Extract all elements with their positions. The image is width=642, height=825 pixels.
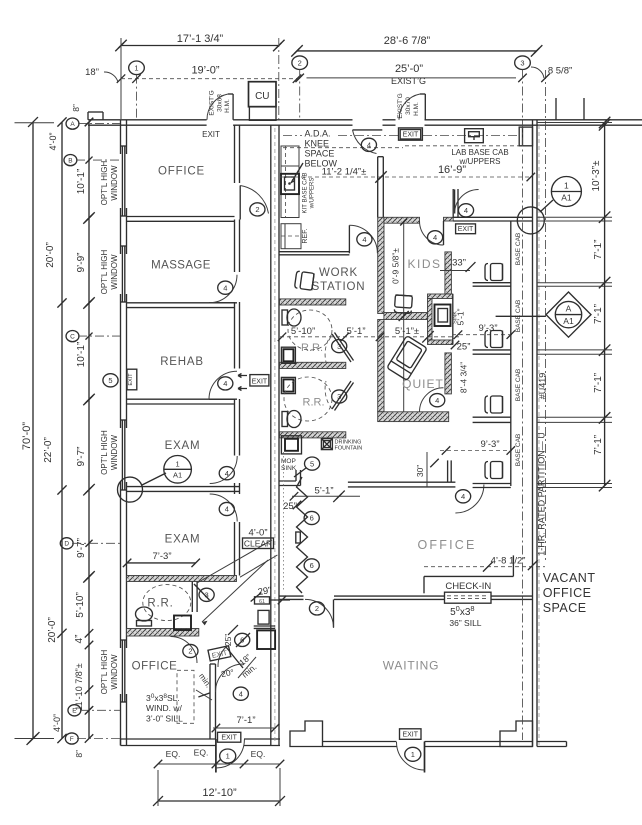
- svg-text:MASSAGE: MASSAGE: [151, 260, 211, 272]
- svg-text:9’-9”: 9’-9”: [76, 252, 87, 272]
- svg-text:4: 4: [362, 235, 366, 244]
- svg-text:3’-0” SILL: 3’-0” SILL: [146, 714, 183, 724]
- vertical dim line kids/quiet: [403, 222, 405, 412]
- lav box top corridor: [465, 129, 484, 143]
- door exam2 (4): [210, 494, 238, 522]
- svg-text:H.M.: H.M.: [413, 102, 420, 116]
- svg-text:2: 2: [188, 647, 192, 656]
- svg-text:EQ.: EQ.: [194, 748, 209, 758]
- svg-text:EXAM: EXAM: [165, 440, 201, 452]
- cubicle partition 1: [473, 282, 511, 284]
- svg-text:OFFICE: OFFICE: [417, 538, 476, 552]
- column right top: [519, 127, 532, 146]
- svg-text:1: 1: [176, 460, 180, 469]
- svg-text:2: 2: [298, 58, 302, 67]
- svg-text:3: 3: [205, 591, 209, 600]
- svg-text:70’-0”: 70’-0”: [21, 422, 33, 450]
- svg-text:EXAM: EXAM: [165, 534, 201, 546]
- tick right end top wall: [599, 120, 607, 128]
- svg-text:30x70: 30x70: [405, 97, 412, 115]
- wall work station north: [280, 251, 350, 253]
- svg-text:4’-0”: 4’-0”: [248, 528, 267, 539]
- mid dim line 20/22/20: [61, 122, 63, 739]
- svg-text:A1: A1: [173, 471, 182, 480]
- svg-text:REHAB: REHAB: [160, 356, 204, 368]
- exit box tilted lower office: [208, 646, 231, 661]
- svg-text:OPT’L HIGH: OPT’L HIGH: [100, 160, 109, 205]
- kids chair: [394, 295, 412, 314]
- svg-text:25”: 25”: [457, 342, 471, 353]
- exit box top right corridor: [399, 128, 423, 140]
- svg-text:10’-1”: 10’-1”: [76, 169, 87, 195]
- grid bubble A: [66, 118, 79, 129]
- svg-text:KNEE: KNEE: [305, 139, 330, 149]
- window dashed (3'0x3'8): [177, 670, 194, 723]
- svg-text:7’-1”: 7’-1”: [593, 435, 604, 455]
- svg-text:A1: A1: [561, 193, 572, 203]
- wall quiet east hatched: [445, 353, 452, 394]
- svg-text:SPACE: SPACE: [543, 601, 587, 615]
- chairs right column: [485, 264, 503, 281]
- svg-text:CHECK-IN: CHECK-IN: [445, 581, 491, 592]
- svg-text:LAB BASE CAB: LAB BASE CAB: [451, 148, 508, 157]
- svg-text:OPT’L HIGH: OPT’L HIGH: [100, 249, 109, 294]
- diamond A/A1: [546, 292, 591, 337]
- svg-text:30x68: 30x68: [217, 94, 224, 112]
- svg-text:5’-1”: 5’-1”: [314, 486, 333, 497]
- wall exterior top: [88, 119, 207, 121]
- zigzag plates: [296, 532, 301, 543]
- dim line bottom eq: [158, 763, 280, 765]
- svg-text:4’-8 1/2”: 4’-8 1/2”: [491, 556, 526, 567]
- door 4 lower office arc: [216, 664, 244, 692]
- svg-text:5’-10”: 5’-10”: [291, 326, 315, 337]
- svg-text:EXIT: EXIT: [128, 373, 134, 386]
- grid bubble D: [60, 538, 73, 549]
- svg-text:EXIT: EXIT: [403, 131, 419, 138]
- svg-text:12’-10”: 12’-10”: [202, 787, 237, 799]
- exit box door1: [218, 732, 241, 742]
- svg-text:WINDOW: WINDOW: [110, 435, 119, 471]
- svg-text:EXIT: EXIT: [252, 378, 268, 385]
- svg-text:7’-1”: 7’-1”: [593, 239, 604, 259]
- check-in counter lines: [423, 576, 425, 593]
- wall kids/quiet divider hatched: [384, 313, 428, 320]
- svg-text:E: E: [72, 708, 77, 715]
- grid bubble 1 top: [129, 61, 145, 75]
- vestibule pier left (waiting): [290, 721, 323, 747]
- door 2 office left-suite + arc: [239, 186, 241, 220]
- wall ada east: [377, 157, 379, 218]
- svg-text:7’-1”: 7’-1”: [593, 373, 604, 393]
- svg-text:17’-1 3/4”: 17’-1 3/4”: [177, 33, 224, 45]
- svg-text:WINDOW: WINDOW: [110, 165, 119, 201]
- svg-text:4’-0”: 4’-0”: [48, 132, 58, 150]
- svg-text:2: 2: [255, 205, 259, 214]
- svg-text:WORK: WORK: [319, 267, 358, 279]
- svg-text:REF.: REF.: [302, 228, 309, 243]
- door 1 waiting: [424, 742, 426, 773]
- grid bubble 2 top: [292, 56, 308, 70]
- svg-text:30”: 30”: [415, 465, 425, 477]
- wall exam/exam: [127, 486, 240, 488]
- witness lines right: [537, 216, 612, 218]
- svg-text:C: C: [70, 333, 75, 340]
- door 3 left r.r.: [194, 584, 210, 600]
- svg-text:CLEAR: CLEAR: [244, 539, 272, 549]
- wall left-suite corridor (right wall): [234, 125, 236, 183]
- wall top-left corner jog: [102, 112, 104, 120]
- r.r.1 right suite walls hatched: [280, 299, 346, 305]
- refrigerator dashed: [281, 224, 301, 249]
- wall rehab/exam: [127, 398, 235, 400]
- dim line dashed y177: [280, 176, 531, 178]
- quiet recliner chair: [387, 336, 427, 381]
- r.r.2 toilet: [282, 412, 288, 427]
- svg-text:25”: 25”: [223, 634, 233, 646]
- wall quiet west hatched: [378, 320, 384, 412]
- r.r. turn circles dashed: [288, 310, 332, 350]
- svg-text:WINDOW: WINDOW: [110, 654, 119, 690]
- svg-text:A.D.A.: A.D.A.: [305, 129, 331, 139]
- door exam1 (4): [210, 456, 238, 484]
- wall below r.r. vestibule: [191, 582, 193, 613]
- svg-text:4: 4: [435, 396, 439, 405]
- svg-text:4: 4: [223, 379, 227, 388]
- leader arrow 4'-0 clear to r.r.: [202, 560, 268, 622]
- leader to detail circle: [540, 200, 553, 212]
- exit box rehab (right): [250, 375, 269, 386]
- svg-text:VACANT: VACANT: [543, 571, 596, 585]
- leader ada to cabinet: [291, 163, 303, 183]
- r.r.1 door 3: [332, 334, 351, 362]
- wall east of lower office: [209, 664, 211, 739]
- wall quiet south hatched: [378, 412, 449, 422]
- svg-text:KIDS: KIDS: [407, 257, 441, 271]
- wall r.r. south: [127, 629, 199, 637]
- svg-text:4”: 4”: [74, 635, 85, 644]
- grid bubble E: [68, 705, 81, 716]
- svg-text:5’-10”: 5’-10”: [75, 592, 86, 618]
- svg-text:3: 3: [520, 58, 524, 67]
- sink counter kids/quiet: [428, 294, 453, 299]
- svg-text:6: 6: [310, 514, 314, 523]
- svg-text:0’-9 5/8”±: 0’-9 5/8”±: [391, 248, 401, 284]
- grid bubble F: [65, 733, 78, 744]
- wall office 30in partition: [348, 481, 456, 483]
- svg-text:33”: 33”: [452, 258, 466, 269]
- svg-text:1: 1: [411, 750, 415, 759]
- svg-text:9’-3”: 9’-3”: [480, 439, 499, 450]
- wall exam2 south (hatched): [127, 576, 237, 582]
- work station chair: [294, 271, 314, 290]
- svg-text:8”: 8”: [71, 104, 81, 112]
- svg-text:OFFICE: OFFICE: [158, 166, 205, 178]
- r.r.2 sink: [281, 377, 295, 393]
- svg-text:R.R.: R.R.: [303, 397, 325, 409]
- check-in window: [445, 592, 492, 603]
- svg-text:4: 4: [223, 283, 227, 292]
- wall exterior right: [532, 120, 534, 747]
- svg-text:A: A: [566, 304, 572, 314]
- wall massage/rehab: [127, 302, 235, 304]
- svg-text:STATION: STATION: [312, 281, 366, 293]
- svg-text:3: 3: [337, 342, 341, 351]
- svg-text:20’-0”: 20’-0”: [47, 617, 58, 643]
- svg-text:6: 6: [310, 561, 314, 570]
- detail bubble 1/A1 at exam1: [164, 456, 192, 484]
- door recess right (exist'g 30x70 h.m.): [424, 94, 426, 120]
- svg-text:1-HR. RATED PARTITION— U: 1-HR. RATED PARTITION— U: [537, 432, 547, 556]
- svg-text:WINDOW: WINDOW: [110, 254, 119, 290]
- svg-text:4: 4: [367, 141, 371, 150]
- svg-text:61: 61: [259, 599, 265, 605]
- svg-text:19’-0”: 19’-0”: [191, 65, 219, 77]
- svg-text:EQ.: EQ.: [166, 749, 181, 759]
- svg-text:36” SILL: 36” SILL: [449, 618, 481, 628]
- svg-text:4: 4: [225, 505, 229, 514]
- wall exterior left with windows: [120, 120, 122, 146]
- svg-text:2: 2: [315, 604, 319, 613]
- svg-text:EXIT: EXIT: [221, 735, 237, 742]
- leader line to diamond: [496, 315, 546, 317]
- circle 5 mop: [305, 457, 320, 470]
- svg-text:1: 1: [564, 181, 569, 191]
- r.r. left suite: dashed turn circle: [143, 585, 191, 621]
- door 4 corridor stub: [452, 189, 454, 217]
- svg-text:16’-9”: 16’-9”: [438, 164, 466, 176]
- svg-text:BASE CAB: BASE CAB: [515, 369, 522, 402]
- base cab line: [510, 221, 512, 486]
- svg-text:22’-0”: 22’-0”: [43, 437, 54, 463]
- svg-text:CU: CU: [255, 91, 269, 102]
- door recess EXIT left (exist'g 30x68 h.m.): [232, 94, 234, 120]
- svg-text:EXIST’G: EXIST’G: [397, 93, 404, 118]
- svg-text:4: 4: [464, 206, 468, 215]
- door massage (4): [209, 302, 237, 304]
- svg-text:OFFICE: OFFICE: [132, 661, 178, 673]
- svg-text:WIND. w/: WIND. w/: [146, 703, 183, 713]
- door office right suite (4): [455, 485, 484, 514]
- svg-text:5’-1”: 5’-1”: [456, 308, 466, 325]
- wall bottom of left suite: [121, 738, 216, 740]
- door 6 angled + labels: [226, 647, 243, 668]
- quiet door (4): [420, 388, 444, 412]
- door rehab (4): [209, 398, 237, 400]
- svg-text:EQ.: EQ.: [251, 749, 266, 759]
- svg-text:EXIT: EXIT: [458, 226, 474, 233]
- svg-text:8 5/8”: 8 5/8”: [548, 66, 572, 77]
- bubble 1/A1 right: [551, 177, 581, 207]
- svg-text:BASE CAB: BASE CAB: [515, 233, 522, 266]
- svg-text:EXIT: EXIT: [202, 130, 220, 139]
- svg-text:OFFICE: OFFICE: [543, 586, 592, 600]
- svg-text:F: F: [70, 736, 74, 743]
- shower box left r.r.: [174, 616, 191, 631]
- corridor dash-dot line top: [283, 135, 302, 137]
- circle 6 upper zigzag: [304, 511, 319, 524]
- svg-text:9’-3”: 9’-3”: [478, 323, 497, 334]
- upper cabinets dashed top corridor: [405, 145, 519, 147]
- exit box corridor: [456, 224, 476, 234]
- svg-text:H.M.: H.M.: [224, 99, 231, 113]
- r.r.2 door 3: [332, 381, 351, 409]
- circle 6 lower office: [235, 633, 250, 646]
- toilet left suite r.r.: [137, 621, 152, 627]
- svg-text:5: 5: [108, 376, 112, 385]
- window left wall: [121, 420, 123, 490]
- clear floor hatch lines exam2 corridor: [197, 540, 272, 583]
- door work station (4): [348, 225, 350, 253]
- kitchen cabinets dashed: [281, 146, 299, 218]
- svg-text:11’-10 7/8”±: 11’-10 7/8”±: [74, 663, 84, 710]
- r.r.1 toilet: [282, 310, 288, 325]
- svg-text:4: 4: [461, 492, 465, 501]
- svg-text:B: B: [68, 157, 72, 164]
- grid bubble 3 top: [515, 56, 531, 70]
- svg-text:10’-1”: 10’-1”: [76, 342, 87, 368]
- svg-text:OPT’L HIGH: OPT’L HIGH: [100, 649, 109, 694]
- door 2 office lower + arc: [171, 637, 198, 664]
- svg-text:#U419: #U419: [538, 373, 548, 400]
- svg-text:5’-1”: 5’-1”: [346, 326, 365, 337]
- detail circle on left wall (exam): [118, 477, 143, 502]
- svg-text:25’-0”: 25’-0”: [395, 63, 423, 75]
- svg-text:FOUNTAIN: FOUNTAIN: [335, 446, 363, 452]
- right dim line: [604, 122, 606, 486]
- cubicle partition 4: [473, 483, 511, 485]
- grid bubble C: [66, 331, 79, 342]
- svg-text:A1: A1: [563, 316, 574, 326]
- svg-text:5’-1”±: 5’-1”±: [395, 326, 419, 337]
- dotted line corridor right of demising: [283, 452, 285, 592]
- svg-text:7’-1”: 7’-1”: [236, 715, 255, 726]
- svg-text:4’-0”: 4’-0”: [52, 714, 62, 732]
- svg-text:9’-7”: 9’-7”: [76, 538, 87, 558]
- sink box: [435, 305, 451, 327]
- inner dim line room heights: [88, 122, 90, 739]
- svg-text:1: 1: [226, 752, 230, 761]
- svg-text:7’-3”: 7’-3”: [152, 551, 171, 562]
- svg-text:SPACE: SPACE: [305, 149, 335, 159]
- cubicle partition 3: [473, 416, 511, 418]
- svg-text:KIT BASE CAB: KIT BASE CAB: [303, 173, 309, 214]
- CU condensing unit: [249, 82, 277, 107]
- wall kids west hatched: [378, 217, 384, 313]
- exit door rehab corridor (5): [127, 369, 137, 390]
- kids door arc (4): [443, 221, 445, 245]
- door 4 top wall + arc: [353, 129, 383, 131]
- window left wall: [121, 246, 123, 302]
- svg-text:EXIT: EXIT: [402, 732, 418, 739]
- svg-text:WAITING: WAITING: [383, 659, 439, 673]
- svg-text:9’-7”: 9’-7”: [76, 446, 87, 466]
- cubicle partition 2: [473, 349, 511, 351]
- svg-text:4: 4: [239, 689, 243, 698]
- svg-text:10’-3”±: 10’-3”±: [591, 160, 602, 192]
- wall office/massage: [127, 216, 235, 218]
- outer dim line 70'-0: [32, 122, 34, 739]
- svg-text:5: 5: [310, 459, 314, 468]
- wall corridor top (hatched kids north): [383, 217, 419, 223]
- exit arrows rehab: [238, 374, 247, 378]
- detail circle wall junction right: [517, 207, 544, 234]
- svg-text:EXIST’G: EXIST’G: [209, 90, 216, 115]
- svg-text:R.R.: R.R.: [147, 598, 173, 610]
- zigzag folding partition: [297, 477, 308, 593]
- wall bottom of waiting room: [323, 741, 397, 743]
- svg-text:11’-2 1/4”±: 11’-2 1/4”±: [322, 167, 367, 178]
- door 1 main exit left suite: [215, 739, 217, 773]
- svg-text:1: 1: [134, 64, 138, 73]
- mop sink box: [281, 436, 301, 454]
- wall demising center: [270, 125, 272, 745]
- svg-text:4: 4: [433, 233, 437, 242]
- svg-text:3: 3: [337, 392, 341, 401]
- wall waiting north: [280, 595, 304, 597]
- wall jog below mop sink: [300, 470, 302, 486]
- window left wall: [121, 146, 123, 216]
- svg-text:D: D: [64, 541, 69, 548]
- grid bubble B: [64, 155, 77, 166]
- window left wall: [121, 640, 123, 702]
- kit sink box: [281, 174, 299, 194]
- vestibule pier right (waiting): [500, 721, 533, 747]
- svg-text:29”: 29”: [257, 585, 272, 598]
- cabinets SE corner lower office: [258, 610, 269, 624]
- r.r.1 sink: [281, 347, 295, 363]
- door 2 waiting (arc): [333, 599, 335, 627]
- svg-text:w/UPPERS: w/UPPERS: [310, 178, 316, 210]
- svg-text:8’-4 3/4”: 8’-4 3/4”: [459, 362, 469, 393]
- svg-text:20’-0”: 20’-0”: [45, 242, 56, 268]
- svg-text:28’-6 7/8”: 28’-6 7/8”: [384, 35, 431, 47]
- storefront jog top right: [555, 98, 557, 120]
- exit box waiting: [400, 729, 422, 740]
- circle 6 lower zigzag: [304, 559, 319, 572]
- svg-text:OPT’L HIGH: OPT’L HIGH: [100, 430, 109, 475]
- svg-text:7’-1”: 7’-1”: [593, 304, 604, 324]
- drinking fountain: [321, 439, 332, 450]
- svg-text:A: A: [70, 121, 75, 128]
- svg-text:4: 4: [225, 469, 229, 478]
- svg-text:BASE CAB: BASE CAB: [515, 434, 522, 467]
- svg-text:8”: 8”: [74, 750, 84, 758]
- wall kids east hatched: [445, 252, 452, 294]
- svg-text:18”: 18”: [85, 67, 99, 78]
